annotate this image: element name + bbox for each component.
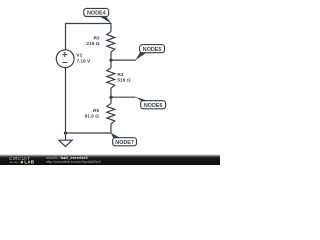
- svg-text:LAB: LAB: [24, 160, 34, 165]
- svg-text:R4: R4: [117, 72, 123, 78]
- svg-text:7.19 V: 7.19 V: [76, 58, 91, 64]
- svg-text:http://circuitlab.com/c/9pv4k6: http://circuitlab.com/c/9pv4k6f3v3: [46, 160, 101, 164]
- svg-text:R5: R5: [93, 108, 99, 114]
- svg-text:219 Ω: 219 Ω: [86, 41, 99, 47]
- svg-text:NODE6: NODE6: [144, 103, 163, 109]
- svg-text:519 Ω: 519 Ω: [117, 77, 130, 83]
- svg-text:NODE5: NODE5: [143, 47, 162, 53]
- svg-text:NODE7: NODE7: [115, 140, 134, 146]
- svg-text:V2: V2: [76, 53, 82, 59]
- svg-text:81.9 Ω: 81.9 Ω: [84, 113, 99, 119]
- svg-text:NODE4: NODE4: [87, 11, 106, 17]
- svg-text:R3: R3: [93, 36, 99, 42]
